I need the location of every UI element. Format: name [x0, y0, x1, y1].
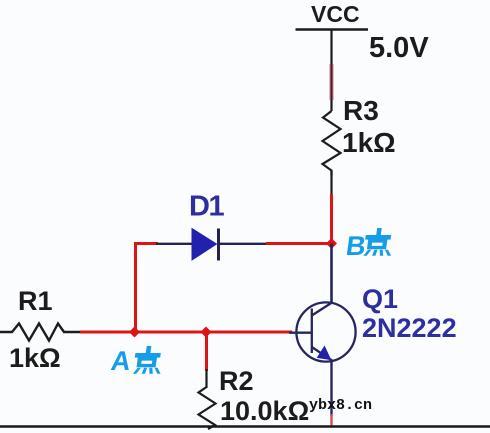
svg-text:Q1: Q1 — [362, 284, 398, 314]
transistor Q1 — [296, 302, 355, 361]
svg-text:1kΩ: 1kΩ — [9, 343, 61, 373]
wire R3 bottom lead black — [330, 171, 332, 196]
wire VCC bar to R3 top (black lead) — [330, 30, 332, 112]
node R2-top junction dot — [201, 327, 212, 338]
Q1 emitter arrow — [318, 347, 331, 360]
svg-text:R3: R3 — [343, 95, 379, 126]
node B junction dot — [326, 238, 337, 249]
wire red riser node A to diode elbow — [134, 242, 137, 333]
wire red net glow on VCC lead — [329, 64, 334, 100]
wire diode cathode lead — [219, 243, 268, 245]
wire red emitter to ground rail — [330, 414, 332, 427]
wire navy base lead into Q1 — [289, 332, 312, 334]
wire red drop to R2 — [205, 332, 208, 371]
svg-text:5.0V: 5.0V — [369, 32, 429, 64]
diode D1 triangle — [192, 229, 217, 261]
wire R2 top lead black — [205, 369, 207, 388]
resistor R2 — [199, 387, 216, 429]
svg-text:VCC: VCC — [311, 1, 360, 27]
wire red main row R1 to Q1 base — [80, 331, 292, 334]
svg-text:10.0kΩ: 10.0kΩ — [220, 396, 309, 426]
ground rail bottom line — [0, 425, 490, 428]
wire navy emitter down — [330, 361, 332, 417]
wire red R3 to node B — [330, 194, 333, 244]
node A junction dot — [129, 327, 140, 338]
svg-text:R1: R1 — [18, 286, 53, 316]
VCC power rail bar — [296, 28, 369, 31]
node A label — [109, 345, 164, 376]
svg-text:R2: R2 — [219, 366, 254, 396]
wire diode anode lead — [156, 243, 193, 245]
wire red diode cathode to node B — [266, 242, 332, 245]
svg-text:D1: D1 — [189, 191, 224, 223]
wire navy collector from node B to Q1 — [330, 244, 333, 303]
wire red elbow from node A riser to diode anode — [136, 242, 159, 245]
svg-text:2N2222: 2N2222 — [362, 313, 457, 343]
resistor R1 — [0, 324, 82, 341]
node B label — [344, 228, 395, 261]
svg-text:1kΩ: 1kΩ — [342, 127, 396, 158]
resistor R3 — [323, 111, 341, 176]
svg-text:ybx8.cn: ybx8.cn — [309, 397, 372, 414]
diode D1 cathode bar — [217, 229, 220, 261]
